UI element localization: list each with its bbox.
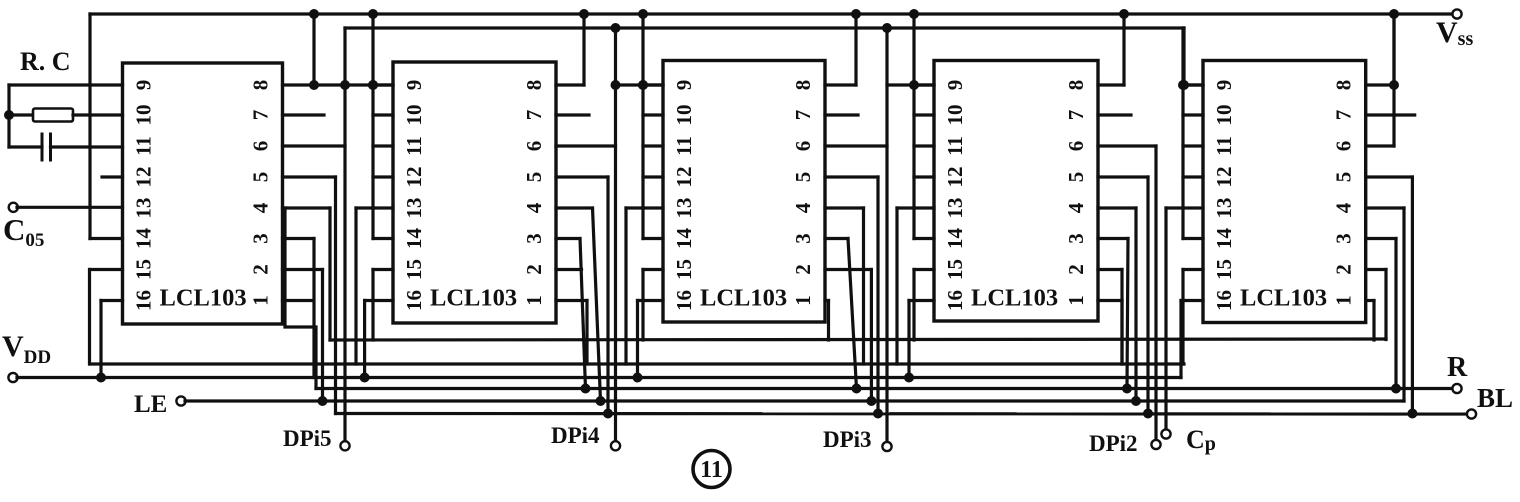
wire Vss drop to U5 pin8 and pin6	[1392, 14, 1395, 146]
wire row B to U4 pin9 / U3 pin6 / DPi3 stem	[885, 28, 888, 443]
svg-text:C05: C05	[3, 212, 44, 251]
svg-text:VDD: VDD	[2, 330, 51, 368]
wire U2 pin7 stub NC	[556, 113, 589, 116]
wire U1 pin5 stub	[283, 175, 336, 178]
wire U5 pin bus stub y177	[1183, 175, 1203, 178]
svg-text:11: 11	[1212, 136, 1236, 156]
wire row B to U3 pin9 / U2 pin6 / DPi4 stem	[614, 28, 617, 442]
wire U4 pin6 drop / DPi2 stem	[1154, 146, 1157, 441]
junction U5 pin5 on BL	[1407, 409, 1417, 419]
wire U5 pin3 stub	[1366, 237, 1396, 240]
svg-text:BL: BL	[1477, 383, 1513, 413]
wire U2 pin1 stub	[556, 299, 587, 302]
junction U1 pin16 on VDD	[96, 373, 106, 383]
wire U3 pin2 stub	[825, 268, 871, 271]
junction U3 pin16 on VDD	[633, 373, 643, 383]
svg-text:Vss: Vss	[1436, 16, 1473, 50]
wire U2 pin8 stub	[556, 83, 584, 86]
wire U1 pin2 stub	[283, 268, 323, 271]
svg-text:3: 3	[1064, 233, 1088, 244]
wire U2 pin bus stub y85	[373, 83, 393, 86]
wire U1 pin4 drop to rail340 start	[328, 208, 331, 340]
svg-text:LCL103: LCL103	[430, 285, 517, 312]
wire U4 pin4 stub	[1098, 206, 1136, 209]
svg-text:16: 16	[1212, 290, 1236, 311]
svg-text:15: 15	[943, 259, 967, 280]
svg-text:11: 11	[672, 136, 696, 156]
wire U2 pin16 stub	[365, 299, 393, 302]
terminal C05	[9, 203, 18, 212]
wire U1 pin2 drop to LE rail	[321, 270, 324, 402]
svg-text:9: 9	[943, 80, 967, 91]
wire rail y364 link	[90, 362, 1184, 365]
svg-text:12: 12	[132, 167, 156, 188]
svg-text:3: 3	[249, 233, 273, 244]
wire U1 pin7 stub NC	[283, 113, 325, 116]
wire U4 pin3 stub	[1098, 237, 1128, 240]
wire U2 pin3 stub	[556, 237, 580, 240]
svg-text:4: 4	[1332, 202, 1356, 213]
wire U4 pin13 branch drop	[895, 208, 898, 364]
junction U2 pin bus at pin9 row	[368, 80, 378, 90]
wire Vss top bus	[90, 12, 1457, 15]
svg-text:2: 2	[1332, 264, 1356, 275]
wire U1 pin1 stub	[283, 299, 314, 302]
svg-text:4: 4	[1064, 202, 1088, 213]
svg-text:4: 4	[791, 202, 815, 213]
svg-text:8: 8	[249, 80, 273, 91]
wire U2 pin bus vertical	[371, 14, 374, 239]
wire U5 pin5 drop to BL	[1411, 177, 1414, 414]
terminal Vss	[1452, 9, 1461, 18]
svg-text:LCL103: LCL103	[971, 285, 1058, 312]
wire U4 pin16 stub	[909, 299, 934, 302]
junction U3 pin5 on BL	[873, 409, 883, 419]
junction U2 pin3 on R rail	[581, 384, 591, 394]
svg-text:LE: LE	[134, 391, 167, 418]
wire U2 pin1 drop	[585, 301, 588, 365]
wire U3 pin5 stub	[825, 175, 878, 178]
svg-text:5: 5	[249, 172, 273, 183]
wire U5 pin16 drop to VDD	[1179, 301, 1182, 378]
wire U1 pin16 stub	[101, 299, 123, 302]
wire U3 pin4 stub	[825, 206, 864, 209]
svg-text:9: 9	[132, 80, 156, 91]
wire U4 pin bus stub y177	[914, 175, 934, 178]
wire U5 pin6 stub	[1366, 144, 1394, 147]
wire U3 pin13 branch drop	[624, 208, 627, 364]
svg-text:14: 14	[132, 228, 156, 250]
wire U4 pin5 drop to BL	[1146, 177, 1149, 414]
wire U4 pin8 rise to top bus	[1122, 14, 1125, 85]
wire U2 pin14 stub	[373, 237, 393, 240]
svg-text:1: 1	[1332, 295, 1356, 306]
wire U5 pin1 stub	[1366, 299, 1374, 302]
svg-text:2: 2	[1064, 264, 1088, 275]
svg-text:DPi5: DPi5	[283, 426, 332, 451]
wire U3 pin1 stub	[825, 299, 829, 302]
junction U3 pin9 row at pin bus	[638, 80, 648, 90]
terminal R	[1452, 384, 1461, 393]
wire U3 pin14 stub	[643, 237, 663, 240]
svg-text:6: 6	[522, 141, 546, 152]
svg-text:2: 2	[522, 264, 546, 275]
svg-text:10: 10	[402, 105, 426, 126]
wire U5 pin3 drop to R rail	[1394, 239, 1397, 389]
svg-text:Cp: Cp	[1186, 425, 1216, 455]
svg-text:5: 5	[522, 172, 546, 183]
junction top bus at U4 pin bus	[909, 9, 919, 19]
wire R rail	[316, 387, 1453, 390]
svg-text:7: 7	[522, 110, 546, 121]
wire U1 pin15 stub	[90, 268, 123, 271]
svg-text:13: 13	[672, 198, 696, 219]
junction U1 pin8 row x345	[340, 80, 350, 90]
wire U1 pin3 stub	[283, 237, 315, 240]
wire U2 pin13 branch drop	[354, 208, 357, 364]
wire U5 pin8 stub	[1366, 83, 1394, 86]
wire U2 pin4 drop	[593, 208, 601, 401]
figure number 11	[693, 451, 730, 488]
terminal DPi3	[882, 442, 891, 451]
IC U3 LCL103 package outline	[663, 61, 825, 323]
svg-text:9: 9	[672, 80, 696, 91]
wire U5 pin2 stub	[1366, 268, 1386, 271]
wire U5 pin5 stub	[1366, 175, 1413, 178]
svg-text:13: 13	[943, 198, 967, 219]
wire U5 pin bus vertical	[1181, 28, 1184, 239]
junction U3 pin2 on LE	[866, 396, 876, 406]
svg-text:1: 1	[522, 295, 546, 306]
wire row B horizontal	[345, 26, 1184, 29]
wire U5 pin13 stub	[1166, 206, 1203, 209]
wire RC left vertical	[7, 85, 10, 147]
wire U4 pin15 drop	[912, 270, 915, 341]
svg-text:4: 4	[522, 202, 546, 213]
wire U5 pin bus stub y85	[1183, 83, 1203, 86]
wire U2 pin5 drop to BL	[606, 177, 609, 414]
svg-text:4: 4	[249, 202, 273, 213]
svg-text:8: 8	[1064, 80, 1088, 91]
wire U2 pin16 drop to VDD	[363, 301, 366, 378]
junction U5 pin3 on R rail	[1391, 384, 1401, 394]
wire U2 pin8 rise to top bus	[582, 14, 585, 85]
svg-text:5: 5	[1064, 172, 1088, 183]
IC U4 LCL103 package outline	[934, 61, 1098, 322]
wire resistor R right lead to U1 pin10	[73, 113, 123, 116]
wire U5 pin1 drop	[1372, 301, 1375, 341]
terminal DPi5	[340, 441, 349, 450]
wire U4 pin7 stub NC	[1098, 113, 1131, 116]
svg-text:DPi3: DPi3	[823, 427, 872, 452]
svg-text:15: 15	[672, 259, 696, 280]
svg-text:5: 5	[791, 172, 815, 183]
junction top bus at U3 pin bus	[638, 9, 648, 19]
svg-text:7: 7	[791, 110, 815, 121]
wire U4 pin1 stub	[1098, 299, 1122, 302]
svg-text:12: 12	[402, 167, 426, 188]
svg-text:12: 12	[943, 167, 967, 188]
wire U4 pin bus stub y85	[914, 83, 934, 86]
wire U2 pin bus stub y177	[373, 175, 393, 178]
svg-text:15: 15	[402, 259, 426, 280]
terminal DPi4	[611, 441, 620, 450]
wire U4 pin5 stub	[1098, 175, 1148, 178]
junction row B x615	[611, 23, 621, 33]
wire U3 pin4 drop	[862, 208, 865, 364]
junction top bus x314	[309, 9, 319, 19]
svg-text:1: 1	[1064, 295, 1088, 306]
wire U3 pin bus stub y146	[643, 144, 663, 147]
wire U2 pin13 stub	[356, 206, 393, 209]
svg-text:11: 11	[132, 136, 156, 156]
wire U2 pin15 stub	[373, 268, 393, 271]
svg-text:13: 13	[132, 198, 156, 219]
wire U3 pin bus stub y85	[643, 83, 663, 86]
wire U3 pin bus stub y177	[643, 175, 663, 178]
wire U4 pin3 drop to R rail	[1127, 239, 1128, 389]
wire top bus left end drop to U1 pin14	[88, 14, 91, 239]
wire U1 pin4 branch to R rail start	[285, 208, 316, 389]
wire U1 pin15 drop to rail364	[88, 270, 91, 365]
wire U1 pin3 drop to VDD	[312, 239, 315, 378]
svg-text:13: 13	[1212, 198, 1236, 219]
wire U4 pin bus vertical	[912, 14, 915, 239]
svg-text:10: 10	[672, 105, 696, 126]
junction U3 pin3 on R rail	[852, 384, 862, 394]
wire U4 pin2 drop	[1120, 270, 1123, 365]
svg-text:10: 10	[943, 105, 967, 126]
svg-text:R. C: R. C	[20, 47, 71, 76]
svg-text:14: 14	[1212, 228, 1236, 250]
svg-text:11: 11	[700, 457, 723, 483]
svg-text:9: 9	[402, 80, 426, 91]
wire U2 pin bus stub y115	[373, 113, 393, 116]
wire U4 pin4 drop	[1134, 208, 1137, 401]
wire C05 to U1 pin13	[17, 206, 123, 209]
wire U2 pin6 stub	[556, 144, 616, 147]
terminal Cp	[1161, 429, 1170, 438]
wire U5 pin bus stub y115	[1183, 113, 1203, 116]
svg-text:12: 12	[1212, 167, 1236, 188]
capacitor C plate right	[49, 134, 52, 160]
svg-text:14: 14	[402, 228, 426, 250]
wire U4 pin bus stub y115	[914, 113, 934, 116]
wire U5 pin14 stub	[1183, 237, 1203, 240]
svg-text:16: 16	[672, 290, 696, 311]
svg-text:DPi2: DPi2	[1089, 431, 1138, 456]
wire U3 pin7 stub NC	[825, 113, 858, 116]
svg-text:11: 11	[402, 136, 426, 156]
junction U4 pin4 on LE	[1131, 396, 1141, 406]
wire capacitor C right lead to U1 pin11	[51, 145, 123, 148]
svg-text:14: 14	[943, 228, 967, 250]
svg-text:LCL103: LCL103	[700, 285, 787, 312]
svg-text:6: 6	[791, 141, 815, 152]
wire BL rail	[336, 412, 1468, 416]
wire row B start / U1 pin6 / DPi5 stem	[343, 28, 346, 442]
svg-text:9: 9	[1212, 80, 1236, 91]
terminal VDD	[8, 373, 17, 382]
svg-text:16: 16	[402, 290, 426, 311]
wire LE rail	[185, 399, 1404, 402]
svg-text:8: 8	[522, 80, 546, 91]
terminal LE	[176, 396, 185, 405]
wire U4 pin bus stub y146	[914, 144, 934, 147]
wire U4 pin15 stub	[914, 268, 934, 271]
wire U4 pin2 stub	[1098, 268, 1122, 271]
svg-text:2: 2	[249, 264, 273, 275]
wire U5 pin bus stub y146	[1183, 144, 1203, 147]
svg-text:LCL103: LCL103	[160, 285, 247, 312]
svg-text:3: 3	[791, 233, 815, 244]
junction U5 pin8 row x1394	[1389, 80, 1399, 90]
wire U1 pin4 stub	[283, 206, 331, 209]
junction U4 pin3 on R rail	[1122, 384, 1132, 394]
wire U4 pin6 stub	[1098, 144, 1156, 147]
svg-text:LCL103: LCL103	[1240, 285, 1327, 312]
wire U3 pin2 drop	[870, 270, 873, 402]
wire U3 pin6 stub	[825, 144, 887, 147]
junction top bus at U2 pin bus	[368, 9, 378, 19]
wire U5 pin2 drop	[1384, 270, 1387, 340]
wire U5 pin15 drop	[1181, 270, 1184, 365]
wire U3 pin3 stub	[825, 237, 848, 240]
svg-text:12: 12	[672, 167, 696, 188]
junction top bus x856	[851, 9, 861, 19]
junction U3 pin bus at pin9 row	[638, 80, 648, 90]
svg-text:16: 16	[943, 290, 967, 311]
svg-text:DPi4: DPi4	[551, 423, 600, 448]
terminal BL	[1467, 409, 1476, 418]
junction top bus x1394	[1389, 9, 1399, 19]
svg-text:10: 10	[1212, 105, 1236, 126]
junction U1 pin2 on LE	[318, 396, 328, 406]
wire U3 pin1 drop	[827, 301, 830, 341]
svg-text:7: 7	[1332, 110, 1356, 121]
junction U1 pin8 row x373	[368, 80, 378, 90]
terminal DPi2	[1151, 440, 1160, 449]
wire U5 pin7 stub NC	[1366, 113, 1415, 116]
IC U2 LCL103 package outline	[393, 62, 556, 323]
svg-text:16: 16	[132, 290, 156, 311]
wire U5 pin15 stub	[1183, 268, 1203, 271]
wire U1 pin5 drop to BL rail start	[334, 177, 337, 414]
svg-text:3: 3	[1332, 233, 1356, 244]
wire U2 pin bus stub y146	[373, 144, 393, 147]
wire U5 pin13 branch drop	[1164, 208, 1167, 364]
wire U5 pin9 row	[1184, 83, 1203, 86]
wire U2 pin4 stub	[556, 206, 593, 209]
svg-text:7: 7	[1064, 110, 1088, 121]
wire U3 pin5 drop to BL	[876, 177, 879, 414]
svg-text:1: 1	[249, 295, 273, 306]
junction U5 pin9 row	[1179, 80, 1189, 90]
svg-text:7: 7	[249, 110, 273, 121]
svg-text:6: 6	[1332, 141, 1356, 152]
svg-text:2: 2	[791, 264, 815, 275]
wire U3 pin bus vertical	[641, 14, 644, 239]
wire U3 pin16 stub	[638, 299, 664, 302]
junction U2 pin4 on LE	[596, 396, 606, 406]
junction U3 pin9 row x615	[611, 80, 621, 90]
svg-text:13: 13	[402, 198, 426, 219]
svg-text:14: 14	[672, 228, 696, 250]
svg-text:5: 5	[1332, 172, 1356, 183]
wire U4 pin16 drop to VDD	[907, 301, 910, 378]
wire U2 pin3 drop to R rail	[580, 239, 586, 389]
wire U3 pin13 stub	[626, 206, 663, 209]
wire U5 pin4 stub	[1366, 206, 1404, 209]
wire U2 pin2 stub	[556, 268, 582, 271]
wire U1 pin8 row to U2 pin9	[283, 83, 394, 86]
wire Cp stem from U5 pin13 branch	[1164, 364, 1167, 431]
wire U1 pin14 stub	[90, 237, 123, 240]
wire row B end drop to U5 pin bus	[1182, 28, 1185, 85]
wire capacitor C left lead	[9, 145, 42, 148]
junction U4 pin16 on VDD	[904, 373, 914, 383]
wire U3 pin15 stub	[643, 268, 663, 271]
wire U1 pin9 row	[9, 83, 123, 86]
junction RC node	[4, 110, 14, 120]
junction U4 pin5 on BL	[1143, 409, 1153, 419]
resistor R	[33, 109, 73, 122]
junction U1 pin8 row x314	[309, 80, 319, 90]
wire U3 pin8 rise to top bus	[854, 14, 857, 85]
junction top bus x1124	[1119, 9, 1129, 19]
svg-text:8: 8	[1332, 80, 1356, 91]
IC U1 LCL103 package outline	[123, 63, 283, 324]
wire U1 pin6 stub	[283, 144, 346, 147]
wire U3 pin15 drop	[641, 270, 644, 341]
junction U2 pin16 on VDD	[360, 373, 370, 383]
wire U3 pin9 row	[616, 83, 664, 86]
junction top bus x584	[579, 9, 589, 19]
wire U1 pin16 drop to VDD	[99, 301, 102, 378]
wire rail y340 U1 pin4 to U5 pin2	[330, 339, 1386, 340]
junction U2 pin5 on BL	[603, 409, 613, 419]
wire U5 pin8 rise to top bus	[1392, 14, 1395, 85]
wire U3 pin16 drop to VDD	[636, 301, 639, 378]
wire U4 pin1 drop	[1120, 301, 1123, 365]
wire U4 pin13 stub	[897, 206, 934, 209]
junction row B x887	[882, 23, 892, 33]
wire U2 pin5 stub	[556, 175, 608, 178]
svg-text:15: 15	[1212, 259, 1236, 280]
wire U4 pin14 stub	[914, 237, 934, 240]
wire U5 pin4 drop	[1402, 208, 1405, 401]
IC U5 LCL103 package outline	[1203, 61, 1366, 323]
junction U5 pin bus at pin9 row	[1178, 80, 1188, 90]
svg-text:15: 15	[132, 259, 156, 280]
wire vertical top bus to U1 pin8 row	[312, 14, 315, 85]
junction U4 pin9 row at pin bus	[909, 80, 919, 90]
wire U5 pin16 stub	[1181, 299, 1203, 302]
wire U3 pin3 drop to R rail	[848, 239, 857, 389]
svg-text:6: 6	[1064, 141, 1088, 152]
wire U3 pin8 stub	[825, 83, 856, 86]
svg-text:R: R	[1447, 352, 1468, 383]
svg-text:10: 10	[132, 105, 156, 126]
wire VDD rail	[17, 376, 1181, 379]
wire U2 pin15 drop	[371, 270, 374, 341]
wire U3 pin bus stub y115	[643, 113, 663, 116]
svg-text:8: 8	[791, 80, 815, 91]
svg-text:6: 6	[249, 141, 273, 152]
wire U4 pin9 row	[887, 83, 934, 86]
wire resistor R left lead	[9, 113, 33, 116]
svg-text:3: 3	[522, 233, 546, 244]
